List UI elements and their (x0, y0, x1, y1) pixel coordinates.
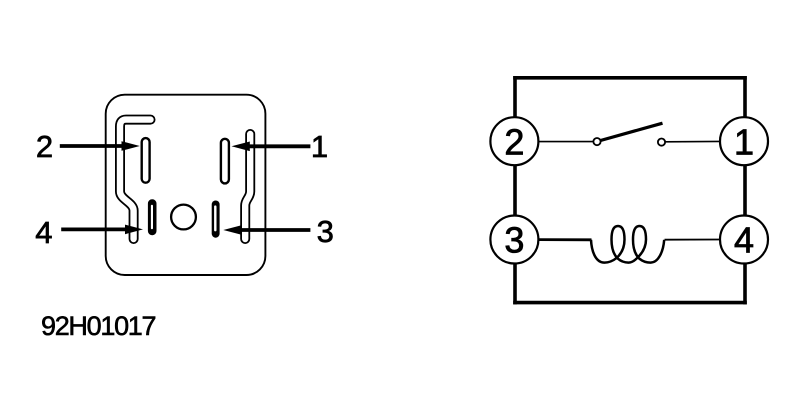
svg-text:3: 3 (504, 220, 524, 261)
svg-text:2: 2 (36, 129, 53, 164)
svg-text:3: 3 (317, 214, 334, 249)
svg-text:2: 2 (504, 121, 524, 162)
svg-text:4: 4 (35, 215, 52, 250)
svg-text:92H01017: 92H01017 (41, 311, 155, 341)
svg-text:4: 4 (734, 220, 754, 261)
svg-text:1: 1 (311, 129, 328, 164)
svg-text:1: 1 (734, 121, 754, 162)
